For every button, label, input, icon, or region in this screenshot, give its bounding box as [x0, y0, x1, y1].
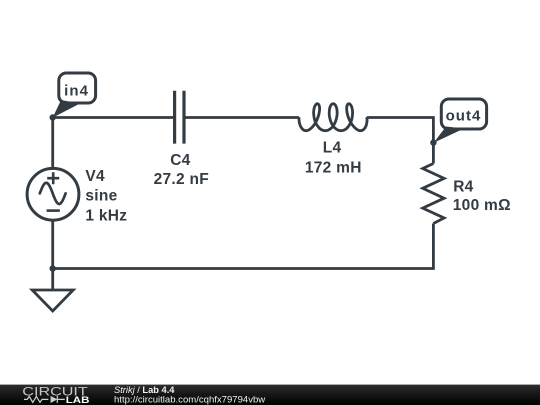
svg-text:L4: L4 [323, 140, 342, 157]
svg-text:out4: out4 [446, 107, 482, 124]
svg-text:sine: sine [85, 187, 117, 204]
svg-text:172 mH: 172 mH [305, 159, 362, 176]
svg-text:27.2 nF: 27.2 nF [154, 171, 209, 188]
svg-text:Strikj / Lab 4.4: Strikj / Lab 4.4 [114, 385, 175, 395]
svg-text:100 mΩ: 100 mΩ [453, 197, 511, 214]
svg-text:C4: C4 [170, 152, 190, 169]
svg-text:1 kHz: 1 kHz [85, 208, 127, 225]
svg-text:in4: in4 [64, 82, 89, 99]
svg-text:http://circuitlab.com/cqhfx797: http://circuitlab.com/cqhfx79794vbw [114, 394, 265, 404]
svg-text:LAB: LAB [66, 394, 90, 405]
svg-text:R4: R4 [453, 178, 473, 195]
svg-text:V4: V4 [85, 168, 105, 185]
